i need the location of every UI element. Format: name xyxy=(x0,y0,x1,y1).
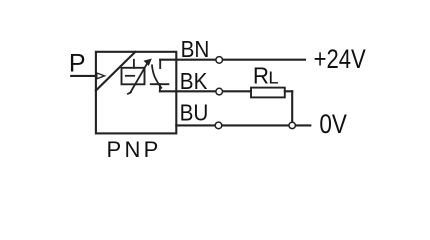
input arrowhead (open) xyxy=(97,73,105,79)
svg-text:BN: BN xyxy=(181,36,210,62)
svg-text:BK: BK xyxy=(180,68,208,94)
svg-text:R: R xyxy=(253,62,269,89)
stub on top of sensing rect xyxy=(133,60,135,68)
wire BU to junction xyxy=(222,124,289,126)
terminal circle BK xyxy=(216,88,223,95)
wire junction to 0V xyxy=(296,124,311,126)
wire BU xyxy=(176,124,215,126)
svg-text:L: L xyxy=(268,68,278,88)
svg-text:PNP: PNP xyxy=(107,137,162,162)
sensing element rectangle xyxy=(122,68,145,85)
svg-text:+24V: +24V xyxy=(314,45,367,74)
wire BN xyxy=(160,59,215,61)
terminal circle BU xyxy=(215,122,222,129)
BN terminal hook (vertical) xyxy=(159,60,161,68)
svg-text:0V: 0V xyxy=(319,110,347,139)
adjustment arrow tail tick xyxy=(128,92,131,94)
junction circle 0V node xyxy=(289,122,295,128)
BK terminal T-bar xyxy=(151,83,169,85)
wire BK to resistor xyxy=(223,90,251,92)
svg-text:P: P xyxy=(69,50,86,78)
adjustment arrow shaft through rect xyxy=(130,62,148,92)
BK terminal vertical xyxy=(159,84,161,91)
wire P input xyxy=(71,75,96,77)
vertical drop to 0V junction xyxy=(291,91,293,122)
terminal circle BN xyxy=(216,57,223,64)
wire BK xyxy=(160,90,216,92)
svg-text:BU: BU xyxy=(180,100,209,126)
switch lever xyxy=(152,65,161,88)
sensor box U1 outline xyxy=(96,52,176,134)
resistor RL body xyxy=(251,88,285,98)
dash inside sensing rect xyxy=(126,75,134,77)
box diagonal xyxy=(96,52,135,91)
wire resistor to corner xyxy=(285,90,292,92)
wire BN to +24V xyxy=(223,59,305,61)
adjustment arrow head (filled) xyxy=(145,59,152,65)
